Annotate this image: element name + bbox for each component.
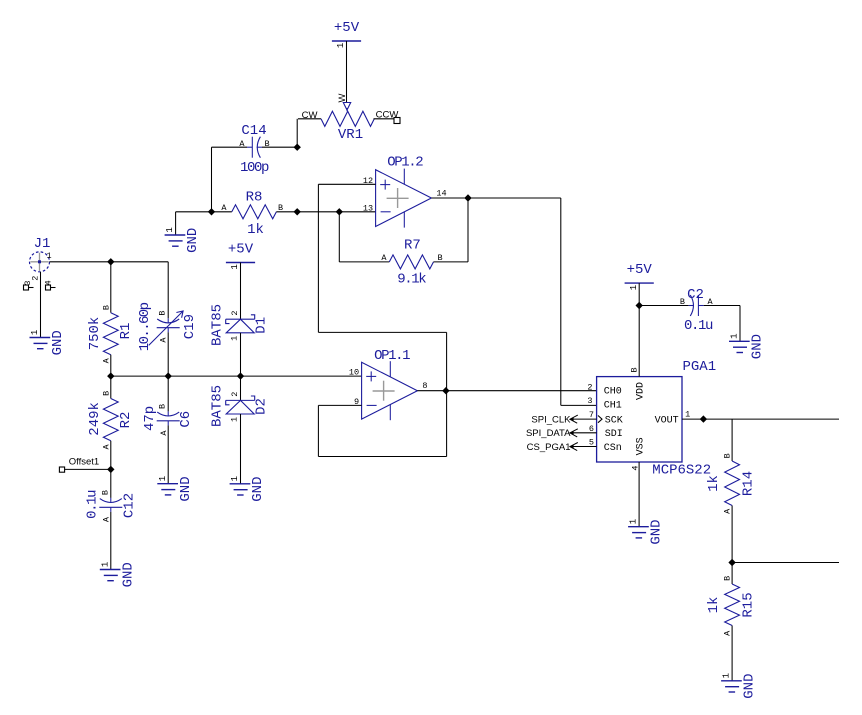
node VOUT <box>700 415 707 422</box>
wire <box>240 376 242 400</box>
diode D2 BAT85 <box>210 385 270 427</box>
svg-text:GND: GND <box>120 562 136 587</box>
wire <box>339 261 389 263</box>
svg-text:A: A <box>723 508 733 514</box>
svg-text:MCP6S22: MCP6S22 <box>652 463 711 479</box>
svg-text:D2: D2 <box>254 398 270 415</box>
wire <box>346 41 348 103</box>
svg-text:0.1u: 0.1u <box>85 490 101 519</box>
op-amp OP1.1 <box>349 348 428 420</box>
unconnected CCW terminal <box>394 118 400 124</box>
node C14-B / VR1 <box>294 144 301 151</box>
wire VOUT <box>682 418 839 420</box>
svg-text:B: B <box>101 490 111 495</box>
wire input node row <box>111 375 362 377</box>
capacitor C2 <box>680 287 714 334</box>
wire to PGA CH1 <box>561 404 597 406</box>
svg-text:SCK: SCK <box>605 415 623 426</box>
net SPI_CLK input <box>531 414 596 425</box>
resistor R1 <box>87 305 134 363</box>
svg-text:GND: GND <box>750 334 766 359</box>
J1 pin 3 stub <box>24 285 34 290</box>
svg-text:9.1k: 9.1k <box>397 271 426 287</box>
wire <box>212 146 248 148</box>
wire <box>434 261 469 263</box>
net CS_PGA1 input <box>527 442 597 453</box>
svg-text:R2: R2 <box>118 412 134 429</box>
wire <box>167 425 169 483</box>
svg-text:A: A <box>101 357 111 363</box>
svg-text:2: 2 <box>587 382 592 392</box>
resistor R15 <box>706 576 757 636</box>
svg-text:GND: GND <box>178 476 194 501</box>
svg-text:B: B <box>723 453 733 458</box>
svg-text:0.1u: 0.1u <box>684 318 713 334</box>
diode D1 BAT85 <box>210 304 270 346</box>
svg-text:GND: GND <box>649 519 665 544</box>
svg-text:750k: 750k <box>87 317 103 351</box>
node R8-B / VR1 wire <box>294 208 301 215</box>
power +5V supply for D1 <box>226 242 255 270</box>
svg-text:VOUT: VOUT <box>655 415 679 426</box>
svg-text:1: 1 <box>230 336 240 341</box>
svg-text:A: A <box>723 630 733 636</box>
wire <box>732 562 839 564</box>
wire <box>110 469 112 498</box>
connector J1 <box>23 236 54 286</box>
wire <box>639 305 689 307</box>
svg-text:R7: R7 <box>404 238 421 254</box>
svg-text:GND: GND <box>250 476 266 501</box>
svg-text:1k: 1k <box>247 222 264 238</box>
svg-text:W: W <box>337 93 348 102</box>
trimmer capacitor C19 <box>137 302 198 351</box>
wire OP1.2 output <box>431 197 560 199</box>
wire <box>211 147 213 212</box>
svg-text:Offset1: Offset1 <box>69 457 99 468</box>
svg-text:B: B <box>101 305 111 310</box>
svg-text:249k: 249k <box>87 402 103 436</box>
wire <box>176 211 232 213</box>
wire <box>467 198 469 262</box>
wire pin 9 <box>318 404 361 406</box>
node OP1.1 output / feedback <box>442 387 449 394</box>
svg-text:CSn: CSn <box>604 443 622 454</box>
svg-text:CH1: CH1 <box>604 400 622 411</box>
ground GND at R15 <box>721 673 758 699</box>
svg-text:1: 1 <box>685 410 690 420</box>
wire J1 pin 1 <box>49 261 168 263</box>
svg-text:C12: C12 <box>122 493 138 518</box>
svg-text:GND: GND <box>742 673 758 698</box>
wire <box>240 333 242 376</box>
svg-text:A: A <box>159 430 169 436</box>
op-amp OP1.2 <box>363 154 447 227</box>
svg-text:1: 1 <box>100 562 110 567</box>
resistor R7 <box>381 238 442 288</box>
wire <box>731 419 733 461</box>
node R1/R2 <box>107 372 114 379</box>
wire <box>110 441 112 470</box>
svg-text:1k: 1k <box>706 475 722 492</box>
svg-text:8: 8 <box>422 381 427 391</box>
wire <box>560 198 562 405</box>
svg-text:B: B <box>629 367 639 372</box>
svg-text:BAT85: BAT85 <box>210 385 226 427</box>
svg-text:GND: GND <box>185 228 201 253</box>
ground GND at C2 <box>729 333 766 359</box>
svg-text:B: B <box>158 404 168 409</box>
svg-text:1: 1 <box>730 333 740 338</box>
net SPI_DATA input <box>526 428 597 439</box>
wire <box>317 405 319 456</box>
wire pin 12 <box>318 183 375 185</box>
ground GND at C6 <box>157 476 194 502</box>
svg-text:2: 2 <box>230 392 240 397</box>
svg-text:GND: GND <box>50 330 66 355</box>
svg-text:VSS: VSS <box>636 437 647 455</box>
svg-text:OP1.1: OP1.1 <box>374 348 410 364</box>
svg-text:1: 1 <box>230 476 240 481</box>
wire <box>167 376 169 411</box>
net stub Offset1 <box>59 457 110 473</box>
node R8-A / C14 / GND <box>208 208 215 215</box>
wire <box>262 146 297 148</box>
wire <box>240 414 242 484</box>
svg-text:2: 2 <box>31 276 41 281</box>
svg-text:1: 1 <box>722 673 732 678</box>
svg-text:R8: R8 <box>246 190 263 206</box>
power +5V supply for VR1 <box>332 20 361 48</box>
svg-text:10: 10 <box>349 368 359 378</box>
node D1/D2 <box>237 372 244 379</box>
wire <box>175 212 177 235</box>
wire <box>110 376 112 398</box>
svg-text:SPI_DATA: SPI_DATA <box>526 428 571 439</box>
wire <box>296 119 298 147</box>
svg-text:A: A <box>159 337 169 343</box>
svg-text:R15: R15 <box>741 592 757 617</box>
svg-text:SPI_CLK: SPI_CLK <box>531 414 571 425</box>
svg-text:3: 3 <box>587 396 592 406</box>
capacitor C14 <box>239 123 269 176</box>
svg-text:R14: R14 <box>741 471 757 496</box>
wire <box>110 512 112 569</box>
svg-text:1: 1 <box>230 417 240 422</box>
potentiometer VR1 <box>298 93 398 143</box>
PGA1 pin names <box>598 382 679 455</box>
svg-text:VDD: VDD <box>636 382 647 400</box>
resistor R14 <box>706 453 757 514</box>
svg-text:B: B <box>680 297 685 307</box>
svg-text:A: A <box>102 516 112 522</box>
node OP1.2 output / R7-B <box>464 194 471 201</box>
svg-text:J1: J1 <box>34 236 51 252</box>
svg-text:C2: C2 <box>687 287 704 303</box>
svg-text:1: 1 <box>629 519 639 524</box>
wire <box>638 283 640 377</box>
svg-text:VR1: VR1 <box>338 127 363 143</box>
node R14 / R15 <box>728 559 735 566</box>
node OP1.2 inverting input / R7-A <box>336 208 343 215</box>
wire <box>338 212 340 262</box>
svg-text:+5V: +5V <box>228 242 254 258</box>
svg-text:OP1.2: OP1.2 <box>387 154 423 170</box>
wire J1 pin 2 <box>40 272 42 337</box>
svg-text:C19: C19 <box>182 314 198 339</box>
wire <box>167 262 169 319</box>
svg-text:1: 1 <box>165 227 175 232</box>
wire <box>110 262 112 313</box>
svg-text:1: 1 <box>47 251 52 261</box>
svg-text:B: B <box>158 310 168 315</box>
wire <box>317 184 319 332</box>
wire <box>276 211 375 213</box>
svg-text:SDI: SDI <box>605 429 623 440</box>
svg-text:A: A <box>381 253 387 263</box>
wire <box>638 462 640 527</box>
wire <box>704 305 740 307</box>
wire <box>318 456 446 458</box>
svg-text:1: 1 <box>30 330 40 335</box>
svg-text:1: 1 <box>629 285 639 290</box>
svg-text:B: B <box>101 391 111 396</box>
node C19/C6 <box>165 372 172 379</box>
IC PGA1 MCP6S22 body <box>597 359 717 478</box>
svg-text:CCW: CCW <box>376 110 399 121</box>
svg-text:B: B <box>723 576 733 581</box>
svg-text:1k: 1k <box>706 597 722 614</box>
capacitor C12 <box>85 490 138 522</box>
svg-text:14: 14 <box>436 189 446 199</box>
wire <box>167 332 169 376</box>
node J1 / R1 top <box>107 258 114 265</box>
wire <box>318 331 446 333</box>
svg-text:47p: 47p <box>142 406 158 431</box>
wire <box>731 563 733 585</box>
capacitor C6 <box>142 404 194 436</box>
ground GND at D2 <box>230 476 267 502</box>
svg-text:A: A <box>101 443 111 449</box>
svg-text:1: 1 <box>158 476 168 481</box>
svg-text:BAT85: BAT85 <box>210 304 226 346</box>
svg-text:R1: R1 <box>118 323 134 340</box>
svg-text:CH0: CH0 <box>604 387 622 398</box>
svg-text:+5V: +5V <box>627 262 653 278</box>
wire <box>240 263 242 320</box>
svg-text:PGA1: PGA1 <box>683 359 717 375</box>
wire <box>446 332 448 456</box>
power +5V supply for PGA1 <box>625 262 654 290</box>
svg-text:13: 13 <box>363 203 373 213</box>
svg-text:A: A <box>221 203 227 213</box>
svg-text:D1: D1 <box>254 317 270 334</box>
node Offset1 / R2 / C12 <box>107 466 114 473</box>
node VDD / C2 <box>636 302 643 309</box>
wire <box>731 626 733 681</box>
svg-text:CW: CW <box>302 110 318 121</box>
svg-text:C6: C6 <box>178 411 194 428</box>
wire <box>739 306 741 342</box>
wire OP1.1 output <box>417 390 596 392</box>
svg-text:C14: C14 <box>241 123 266 139</box>
svg-text:CS_PGA1: CS_PGA1 <box>527 442 571 453</box>
J1 pin 4 stub <box>46 285 56 290</box>
resistor R8 <box>221 190 283 239</box>
PGA1 pin numbers <box>587 367 690 470</box>
ground GND at C12 <box>100 562 137 588</box>
svg-text:+5V: +5V <box>334 20 360 36</box>
svg-text:1: 1 <box>230 264 240 269</box>
wire <box>110 355 112 376</box>
resistor R2 <box>87 391 134 450</box>
svg-text:100p: 100p <box>240 160 269 176</box>
wire <box>731 506 733 563</box>
ground GND at PGA1 <box>628 519 665 545</box>
svg-text:1: 1 <box>336 43 346 48</box>
svg-text:2: 2 <box>230 310 240 315</box>
ground GND at J1 <box>30 330 67 356</box>
ground GND at R8 <box>165 227 202 253</box>
